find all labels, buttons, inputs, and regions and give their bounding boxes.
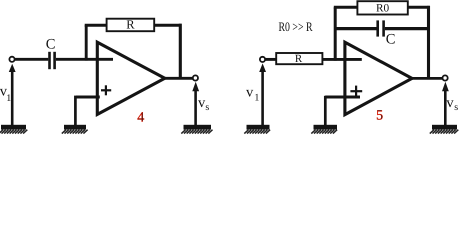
svg-text:R0: R0 — [376, 3, 390, 15]
svg-text:5: 5 — [376, 109, 383, 124]
svg-text:s: s — [454, 102, 458, 113]
svg-text:1: 1 — [254, 93, 259, 104]
svg-text:C: C — [46, 37, 56, 53]
svg-text:4: 4 — [137, 111, 144, 126]
svg-text:R: R — [126, 17, 135, 31]
svg-text:v: v — [246, 85, 254, 101]
svg-text:s: s — [205, 102, 209, 113]
svg-text:C: C — [386, 32, 396, 48]
svg-text:R0 >> R: R0 >> R — [279, 19, 313, 34]
svg-text:1: 1 — [6, 93, 11, 104]
svg-text:R: R — [295, 53, 303, 65]
svg-text:v: v — [446, 95, 454, 111]
